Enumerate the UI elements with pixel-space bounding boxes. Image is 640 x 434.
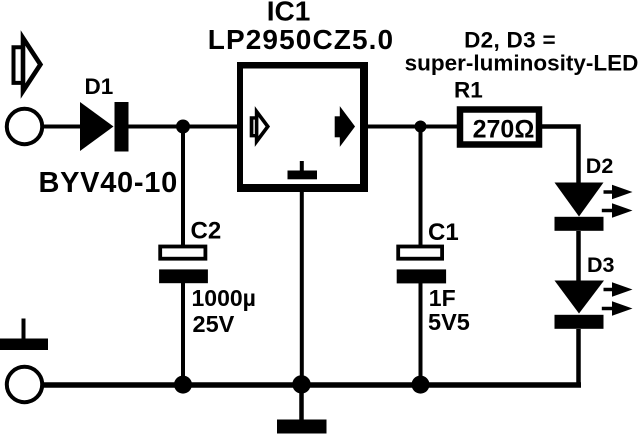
resistor R1 bbox=[460, 110, 539, 145]
chassis symbol top-left of output terminal bbox=[0, 319, 48, 351]
wire C1 to bottom rail bbox=[419, 283, 423, 386]
svg-text:1F: 1F bbox=[429, 285, 456, 311]
svg-text:super-luminosity-LED: super-luminosity-LED bbox=[405, 51, 639, 76]
svg-text:D2: D2 bbox=[586, 154, 614, 178]
wire input to D1 bbox=[42, 125, 81, 129]
capacitor C2 top plate bbox=[160, 247, 205, 259]
wire D2 to D3 bbox=[576, 231, 581, 281]
svg-text:270Ω: 270Ω bbox=[473, 116, 535, 144]
svg-text:5V5: 5V5 bbox=[428, 309, 470, 335]
wire D3 to bottom rail bbox=[576, 329, 581, 385]
IC1 box bbox=[237, 62, 368, 192]
wire IC1 output to R1 bbox=[367, 125, 458, 129]
svg-text:C1: C1 bbox=[428, 219, 459, 246]
light arrows D2 bbox=[602, 185, 633, 218]
svg-text:D1: D1 bbox=[85, 74, 114, 99]
junction node rail at IC ground bbox=[292, 375, 310, 393]
junction node rail at C2 bbox=[174, 376, 192, 394]
wire C2 to bottom rail bbox=[181, 283, 185, 386]
ground symbol below rail bbox=[277, 385, 327, 434]
IC1 input arrow (hollow) bbox=[250, 112, 268, 142]
output terminal (0V) bbox=[7, 367, 42, 402]
svg-text:R1: R1 bbox=[454, 78, 483, 103]
LED D2 bbox=[555, 183, 604, 231]
svg-text:D2, D3 =: D2, D3 = bbox=[464, 28, 556, 53]
wire junction down to C2 bbox=[181, 127, 185, 251]
wire D1 to IC1 bbox=[129, 125, 239, 129]
IC1 ground tab inside box bbox=[288, 161, 318, 179]
bottom rail wire bbox=[42, 382, 581, 388]
wire IC1 ground to rail bbox=[300, 191, 304, 385]
svg-text:D3: D3 bbox=[587, 253, 615, 277]
capacitor C2 bottom plate bbox=[159, 269, 208, 283]
light arrows D3 bbox=[602, 282, 633, 315]
wire junction down to C1 bbox=[419, 127, 423, 251]
IC1 output arrow (solid) bbox=[335, 112, 353, 142]
capacitor C1 bottom plate bbox=[397, 269, 446, 283]
svg-text:C2: C2 bbox=[191, 218, 222, 245]
svg-text:IC1: IC1 bbox=[267, 0, 311, 27]
DC supply plug symbol bbox=[12, 38, 41, 91]
svg-text:1000µ: 1000µ bbox=[192, 285, 256, 311]
svg-text:25V: 25V bbox=[193, 311, 235, 337]
svg-text:BYV40-10: BYV40-10 bbox=[39, 167, 178, 199]
LED D3 bbox=[555, 281, 605, 329]
capacitor C1 top plate bbox=[398, 247, 442, 259]
junction node after D1 bbox=[176, 120, 190, 134]
input terminal (+) bbox=[7, 109, 42, 144]
svg-text:LP2950CZ5.0: LP2950CZ5.0 bbox=[208, 24, 394, 55]
diode D1 bbox=[80, 102, 129, 152]
junction node at C1 bbox=[415, 121, 427, 133]
junction node rail at C1 bbox=[412, 376, 430, 394]
wire R1 to top-right corner and down to D2 bbox=[542, 127, 579, 184]
